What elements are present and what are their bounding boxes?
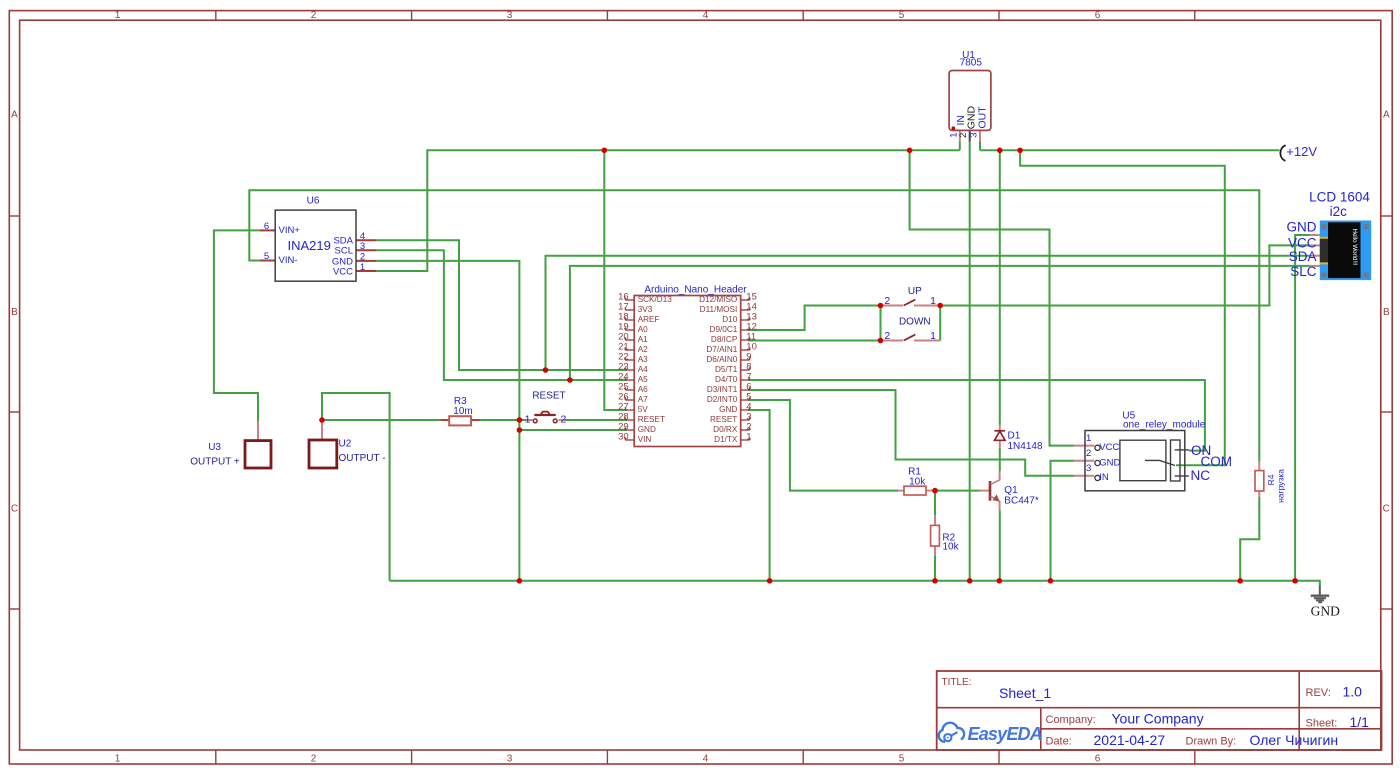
svg-text:A5: A5	[638, 375, 648, 384]
svg-text:REV:: REV:	[1306, 687, 1331, 699]
svg-text:VIN-: VIN-	[279, 255, 298, 266]
svg-text:DOWN: DOWN	[899, 317, 931, 328]
svg-text:U2: U2	[339, 439, 352, 450]
svg-text:D5/T1: D5/T1	[715, 365, 738, 374]
svg-text:IN: IN	[1099, 472, 1109, 483]
svg-text:7805: 7805	[960, 58, 983, 69]
svg-text:нагрузка: нагрузка	[1276, 469, 1286, 503]
svg-text:GND: GND	[1311, 603, 1340, 618]
svg-text:2: 2	[958, 133, 969, 138]
svg-text:10k: 10k	[943, 542, 960, 553]
svg-text:SCL: SCL	[335, 246, 353, 257]
svg-text:GND: GND	[1099, 457, 1120, 468]
svg-text:3: 3	[360, 241, 365, 252]
svg-text:1.0: 1.0	[1343, 684, 1363, 700]
svg-text:VIN+: VIN+	[279, 225, 301, 236]
svg-text:1: 1	[930, 330, 936, 342]
svg-text:i2c: i2c	[1330, 204, 1348, 219]
svg-text:OUTPUT +: OUTPUT +	[190, 456, 240, 467]
svg-text:VCC: VCC	[1099, 442, 1119, 453]
svg-text:TITLE:: TITLE:	[942, 677, 972, 688]
svg-text:4: 4	[703, 10, 709, 21]
svg-text:RESET: RESET	[532, 391, 565, 402]
svg-text:C: C	[1383, 504, 1390, 515]
svg-text:5: 5	[899, 754, 905, 765]
svg-text:3: 3	[507, 754, 513, 765]
svg-text:D9/0C1: D9/0C1	[710, 325, 738, 334]
svg-text:U3: U3	[208, 442, 221, 453]
svg-text:A0: A0	[638, 325, 648, 334]
svg-text:A1: A1	[638, 335, 648, 344]
svg-text:Sheet_1: Sheet_1	[999, 685, 1051, 701]
svg-text:GND: GND	[638, 425, 656, 434]
svg-text:A7: A7	[638, 395, 648, 404]
svg-text:A2: A2	[638, 345, 648, 354]
svg-text:OUTPUT -: OUTPUT -	[339, 453, 386, 464]
svg-text:6: 6	[1095, 754, 1101, 765]
svg-text:10m: 10m	[453, 406, 472, 417]
svg-text:RESET: RESET	[638, 415, 665, 424]
svg-text:D1: D1	[1008, 431, 1021, 442]
svg-text:1/1: 1/1	[1350, 714, 1370, 730]
svg-text:AREF: AREF	[638, 315, 660, 324]
svg-text:NC: NC	[1191, 468, 1211, 483]
svg-text:4: 4	[703, 754, 709, 765]
svg-text:+12V: +12V	[1286, 144, 1317, 159]
svg-text:1: 1	[115, 10, 121, 21]
svg-text:2: 2	[311, 754, 317, 765]
svg-text:2: 2	[884, 295, 890, 307]
svg-text:VIN: VIN	[638, 435, 652, 444]
svg-text:D3/INT1: D3/INT1	[707, 385, 738, 394]
svg-text:D11/MOSI: D11/MOSI	[700, 305, 738, 314]
svg-text:OUT: OUT	[976, 106, 988, 129]
svg-text:3: 3	[969, 133, 980, 138]
svg-text:3: 3	[1086, 463, 1091, 474]
svg-text:SCK/D13: SCK/D13	[638, 295, 673, 304]
svg-text:SLC: SLC	[1290, 264, 1317, 279]
svg-text:1: 1	[746, 431, 751, 442]
svg-text:2: 2	[1086, 448, 1091, 459]
svg-text:D0/RX: D0/RX	[713, 425, 738, 434]
svg-text:D7/AIN1: D7/AIN1	[706, 345, 737, 354]
svg-text:D8/ICP: D8/ICP	[711, 335, 738, 344]
svg-text:B: B	[11, 307, 18, 318]
svg-text:3V3: 3V3	[638, 305, 653, 314]
svg-text:2: 2	[561, 413, 567, 425]
svg-text:1N4148: 1N4148	[1008, 441, 1043, 452]
svg-text:U6: U6	[307, 196, 320, 207]
svg-text:5: 5	[899, 10, 905, 21]
svg-text:3: 3	[507, 10, 513, 21]
svg-text:Your Company: Your Company	[1112, 711, 1204, 727]
svg-text:30: 30	[618, 431, 629, 442]
svg-text:Date:: Date:	[1046, 736, 1072, 748]
svg-text:Arduino_Nano_Header: Arduino_Nano_Header	[644, 285, 747, 296]
svg-text:RESET: RESET	[710, 415, 737, 424]
svg-text:2021-04-27: 2021-04-27	[1094, 732, 1166, 748]
svg-text:Sheet:: Sheet:	[1306, 718, 1338, 730]
svg-text:1: 1	[360, 262, 365, 273]
svg-text:D1/TX: D1/TX	[714, 435, 738, 444]
svg-text:D2/INT0: D2/INT0	[707, 395, 738, 404]
svg-text:one_reley_module: one_reley_module	[1123, 420, 1206, 431]
svg-text:D10: D10	[722, 315, 737, 324]
svg-text:UP: UP	[908, 286, 922, 297]
svg-text:1: 1	[115, 754, 121, 765]
svg-text:A3: A3	[638, 355, 648, 364]
svg-text:LCD 1604: LCD 1604	[1309, 190, 1370, 205]
svg-text:EasyEDA: EasyEDA	[968, 724, 1042, 744]
svg-text:D6/AIN0: D6/AIN0	[706, 355, 737, 364]
svg-text:GND: GND	[1287, 219, 1317, 234]
svg-text:A6: A6	[638, 385, 648, 394]
svg-text:Олег Чичигин: Олег Чичигин	[1250, 732, 1339, 748]
svg-text:5V: 5V	[638, 405, 649, 414]
svg-text:1: 1	[525, 413, 531, 425]
svg-text:BC447*: BC447*	[1004, 495, 1039, 506]
svg-text:Company:: Company:	[1046, 714, 1096, 726]
svg-text:A4: A4	[638, 365, 648, 374]
svg-text:2: 2	[311, 10, 317, 21]
svg-text:R4: R4	[1266, 474, 1276, 485]
svg-text:A: A	[11, 110, 18, 121]
svg-text:SDA: SDA	[1289, 249, 1317, 264]
svg-text:1: 1	[930, 295, 936, 307]
svg-text:10k: 10k	[909, 476, 926, 487]
svg-text:Drawn By:: Drawn By:	[1186, 736, 1237, 748]
svg-text:INA219: INA219	[288, 238, 331, 253]
svg-text:VCC: VCC	[333, 266, 353, 277]
svg-text:D12/MISO: D12/MISO	[699, 295, 737, 304]
svg-text:COM: COM	[1201, 454, 1233, 469]
svg-text:D4/T0: D4/T0	[715, 375, 738, 384]
svg-text:C: C	[11, 504, 18, 515]
svg-text:A: A	[1383, 110, 1390, 121]
svg-text:GND: GND	[719, 405, 737, 414]
svg-text:Hello World!!!: Hello World!!!	[1351, 229, 1358, 266]
svg-text:B: B	[1383, 307, 1390, 318]
svg-text:6: 6	[264, 221, 269, 232]
svg-text:1: 1	[1086, 433, 1091, 444]
svg-text:6: 6	[1095, 10, 1101, 21]
svg-text:2: 2	[884, 330, 890, 342]
svg-text:5: 5	[264, 251, 269, 262]
